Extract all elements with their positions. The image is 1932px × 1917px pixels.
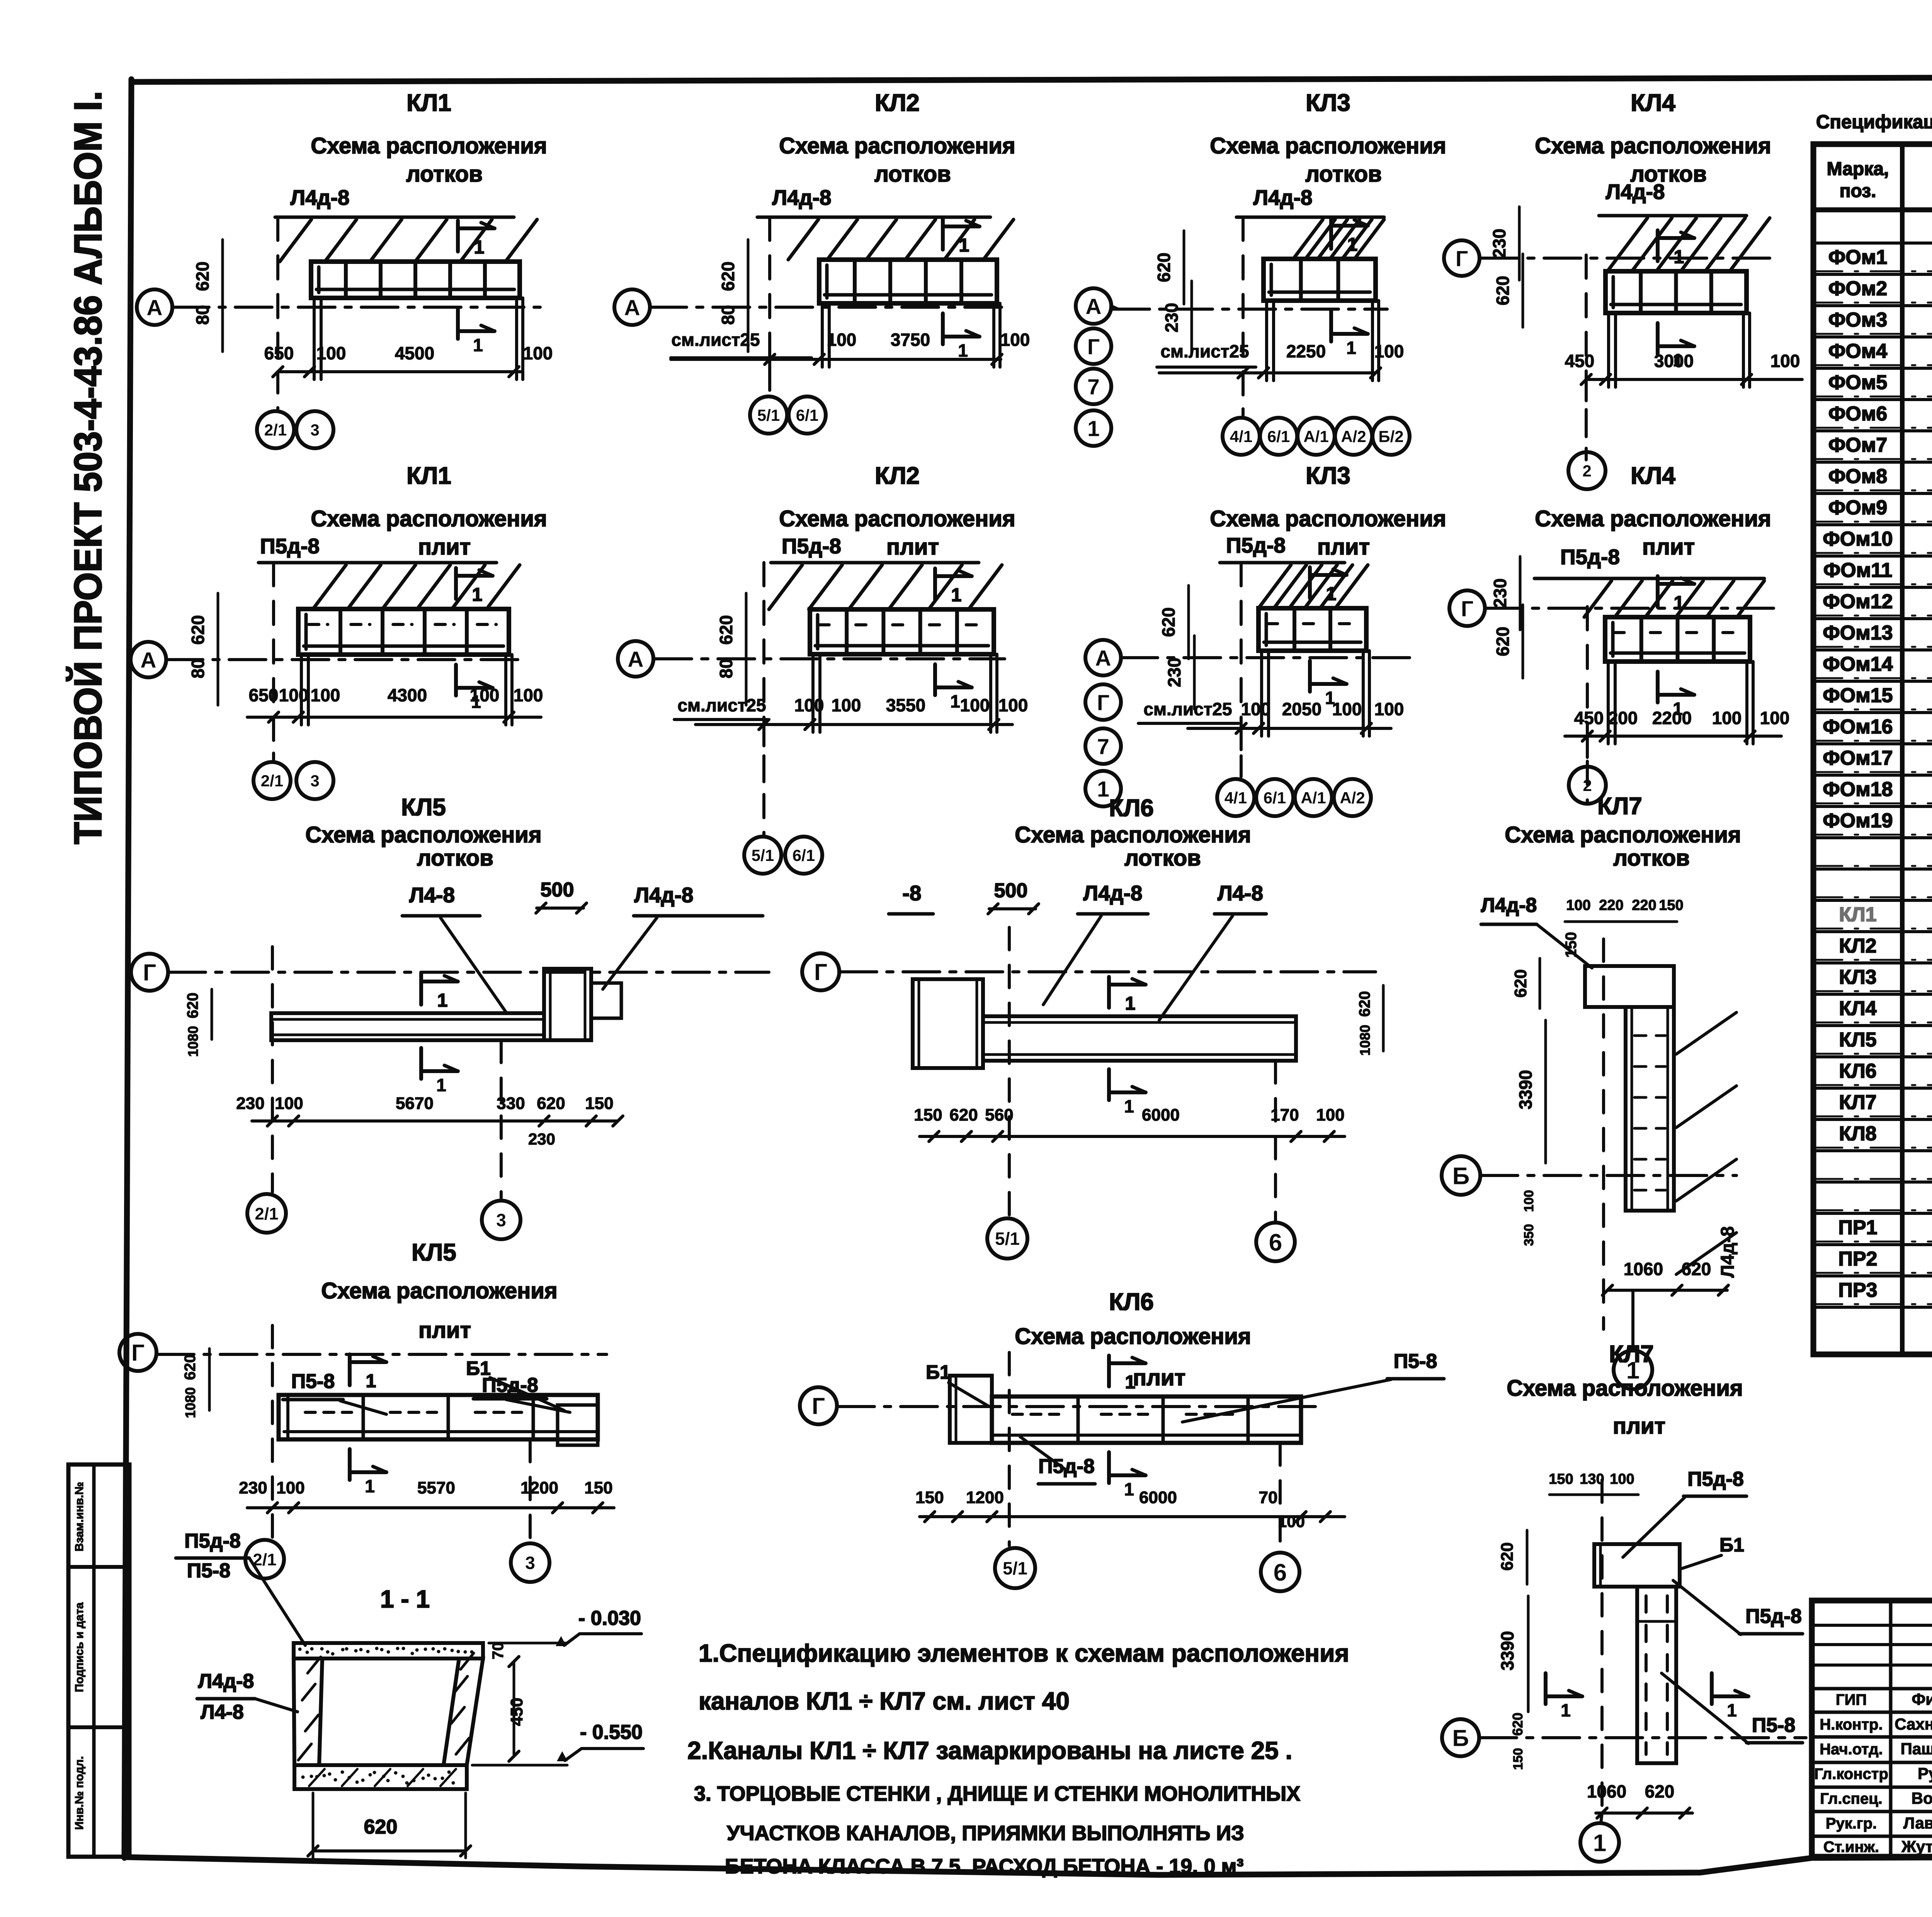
scheme КЛ5 лотков: verticals	[271, 947, 274, 1192]
svg-text:100: 100	[279, 685, 309, 705]
specification table grid	[1813, 144, 1932, 1354]
svg-text:Л4д-8: Л4д-8	[1253, 185, 1313, 209]
scheme КЛ4 лотков: axis line	[1481, 257, 1774, 260]
svg-text:ФОм6: ФОм6	[1828, 403, 1887, 425]
scheme КЛ7 плит: grid bubble 1	[1580, 1823, 1619, 1862]
svg-text:100: 100	[1566, 897, 1590, 913]
scheme КЛ1 плит: channel bar	[298, 609, 509, 655]
scheme КЛ4 плит: axis line	[1486, 607, 1774, 610]
svg-text:- 0.030: - 0.030	[578, 1607, 641, 1630]
svg-text:3390: 3390	[1497, 1631, 1517, 1670]
svg-text:620: 620	[364, 1816, 398, 1838]
svg-text:Г: Г	[814, 959, 827, 985]
svg-text:220: 220	[1599, 897, 1623, 913]
svg-text:Схема расположения: Схема расположения	[779, 506, 1015, 531]
svg-text:А/1: А/1	[1301, 789, 1326, 807]
scheme КЛ4 плит: channel bar	[1605, 617, 1750, 662]
svg-text:1.Спецификацию элементов к с: 1.Спецификацию элементов к схемам распол…	[699, 1639, 1349, 1667]
svg-text:2/1: 2/1	[261, 772, 283, 790]
svg-text:Л4д-8: Л4д-8	[634, 883, 694, 907]
scheme КЛ5 лотков: channel plan	[271, 1013, 544, 1040]
svg-text:ФОм18: ФОм18	[1823, 778, 1893, 801]
svg-text:2: 2	[1582, 462, 1591, 480]
scheme КЛ4 плит: position dashed line	[1586, 607, 1589, 803]
svg-text:1: 1	[1674, 247, 1684, 267]
svg-text:620: 620	[184, 993, 201, 1019]
svg-text:ФОм5: ФОм5	[1828, 371, 1887, 394]
scheme КЛ6 лотков: verticals	[1008, 927, 1011, 1217]
svg-text:620: 620	[192, 262, 213, 291]
svg-text:Схема расположения: Схема расположения	[311, 506, 547, 531]
svg-text:1: 1	[473, 335, 483, 355]
svg-text:Г: Г	[1456, 247, 1468, 271]
svg-text:2200: 2200	[1652, 708, 1692, 728]
svg-text:2/1: 2/1	[253, 1550, 276, 1569]
svg-text:100: 100	[523, 343, 553, 363]
svg-text:А/1: А/1	[1303, 427, 1328, 446]
scheme КЛ3 плит: axis bubble 7	[1085, 728, 1121, 764]
svg-text:П5д-8: П5д-8	[184, 1530, 241, 1552]
svg-text:Схема расположения: Схема расположения	[1507, 1376, 1743, 1401]
scheme КЛ3 лотков: см.лист25 underline	[1157, 366, 1256, 369]
svg-text:5/1: 5/1	[757, 406, 780, 424]
svg-text:80: 80	[716, 658, 736, 678]
svg-text:5/1: 5/1	[995, 1229, 1020, 1249]
svg-text:1080: 1080	[185, 1026, 201, 1057]
scheme КЛ3 плит: channel bar	[1259, 608, 1366, 651]
svg-text:КЛ3: КЛ3	[1306, 463, 1350, 489]
svg-text:П5д-8: П5д-8	[1560, 545, 1620, 569]
svg-text:поз.: поз.	[1840, 181, 1876, 201]
svg-text:1: 1	[1125, 993, 1136, 1014]
scheme КЛ6 плит: plate bar	[950, 1376, 992, 1443]
svg-text:1: 1	[1097, 777, 1109, 802]
svg-text:Л4д-8: Л4д-8	[291, 185, 350, 209]
scheme КЛ6 плит: section marks	[1107, 1356, 1111, 1386]
scheme КЛ1 плит: position dashed line	[272, 563, 275, 748]
scheme КЛ3 плит: hatched slab band	[1259, 565, 1291, 608]
svg-text:П5-8: П5-8	[1752, 1714, 1796, 1737]
svg-text:Схема расположения: Схема расположения	[779, 133, 1015, 158]
svg-text:4/1: 4/1	[1230, 427, 1252, 446]
svg-text:1: 1	[471, 692, 481, 712]
scheme КЛ2 лотков: см.лист25 underline	[671, 356, 811, 359]
svg-text:КЛ4: КЛ4	[1631, 90, 1675, 116]
svg-text:5/1: 5/1	[752, 846, 774, 864]
svg-text:плит: плит	[1613, 1414, 1665, 1439]
scheme КЛ6 лотков: axis Г	[802, 953, 839, 990]
scheme КЛ4 плит: axis bubble Г	[1449, 590, 1485, 626]
svg-text:плит: плит	[886, 534, 939, 560]
scheme КЛ3 плит: axis line	[1121, 656, 1410, 659]
svg-text:1: 1	[472, 585, 483, 605]
svg-text:КЛ5: КЛ5	[412, 1239, 456, 1266]
scheme КЛ1 плит: axis line	[166, 658, 526, 661]
svg-text:А: А	[140, 648, 156, 673]
svg-text:лотков: лотков	[1305, 162, 1382, 187]
svg-text:лотков: лотков	[406, 162, 483, 187]
svg-text:7: 7	[1087, 375, 1100, 400]
svg-text:1200: 1200	[966, 1488, 1004, 1507]
scheme КЛ2 плит: hatched slab band	[769, 565, 802, 609]
svg-text:ПР2: ПР2	[1838, 1248, 1878, 1270]
scheme КЛ7 лотков: grid bubble 1	[1614, 1351, 1652, 1389]
svg-text:100: 100	[275, 1094, 303, 1113]
svg-text:каналов КЛ1 ÷ КЛ7 см. лист: каналов КЛ1 ÷ КЛ7 см. лист 40	[699, 1687, 1070, 1715]
svg-text:КЛ5: КЛ5	[1839, 1029, 1876, 1051]
svg-text:лотков: лотков	[874, 162, 951, 187]
svg-text:620: 620	[1158, 607, 1179, 637]
svg-text:1060: 1060	[1587, 1781, 1626, 1801]
svg-text:200: 200	[1608, 708, 1638, 728]
svg-text:Схема расположения: Схема расположения	[1210, 133, 1446, 158]
svg-text:500: 500	[541, 879, 574, 901]
svg-text:1: 1	[959, 235, 969, 256]
scheme КЛ2 плит: axis line	[655, 657, 1005, 660]
svg-text:1: 1	[1087, 417, 1100, 441]
svg-text:3: 3	[310, 421, 319, 439]
svg-text:1: 1	[1125, 1372, 1136, 1393]
scheme КЛ4 плит: hatched slab band	[1584, 581, 1612, 617]
svg-text:1200: 1200	[520, 1478, 558, 1497]
svg-text:Инв.№ подл.: Инв.№ подл.	[73, 1756, 86, 1830]
svg-text:Схема расположения: Схема расположения	[1505, 822, 1741, 847]
svg-text:лотков: лотков	[417, 845, 493, 871]
scheme КЛ5 лотков: grid bubbles	[247, 1194, 286, 1233]
svg-text:1: 1	[1673, 699, 1683, 719]
svg-text:КЛ7: КЛ7	[1597, 793, 1642, 820]
svg-text:БЕТОНА КЛАССА В 7.5. РАСХ: БЕТОНА КЛАССА В 7.5. РАСХОД БЕТОНА - 19.…	[725, 1855, 1243, 1878]
scheme КЛ1 плит: dimension line	[247, 716, 541, 719]
scheme КЛ7 лотков: channel plan (L-shape)	[1585, 966, 1674, 1007]
scheme КЛ2 плит: position dashed line	[762, 563, 765, 835]
svg-text:3390: 3390	[1515, 1070, 1536, 1109]
scheme КЛ2 лотков: axis bubble А	[614, 289, 650, 325]
svg-text:Л4д-8: Л4д-8	[198, 1670, 254, 1692]
scheme КЛ3 плит: dimension line	[1188, 727, 1391, 730]
svg-text:100: 100	[514, 685, 543, 705]
section 1-1: trough cross-section	[294, 1643, 483, 1658]
svg-text:см.лист25: см.лист25	[1143, 699, 1232, 719]
svg-text:см.лист25: см.лист25	[1160, 341, 1249, 361]
svg-text:170: 170	[1270, 1106, 1299, 1124]
scheme КЛ5 плит: verticals	[271, 1325, 274, 1540]
svg-text:1: 1	[951, 585, 962, 606]
svg-text:ФОм4: ФОм4	[1828, 340, 1887, 362]
svg-text:6/1: 6/1	[793, 846, 815, 864]
svg-text:620: 620	[1645, 1781, 1675, 1801]
svg-text:плит: плит	[418, 1318, 471, 1343]
svg-text:620: 620	[1154, 253, 1174, 282]
svg-text:Л4д-8: Л4д-8	[1481, 894, 1537, 917]
svg-text:80: 80	[718, 305, 738, 325]
svg-text:Г: Г	[143, 960, 156, 986]
scheme КЛ6 плит: axis Г	[800, 1387, 837, 1424]
scheme КЛ6 плит: grid bubbles	[995, 1548, 1035, 1588]
svg-text:100: 100	[276, 1478, 304, 1497]
scheme КЛ3 лотков: axis bubble А	[1076, 288, 1111, 324]
scheme КЛ3 лотков: axis bubble Г	[1076, 328, 1111, 364]
svg-text:ФОм11: ФОм11	[1823, 559, 1892, 582]
scheme КЛ2 плит: grid bubbles bottom	[744, 837, 781, 874]
scheme КЛ2 плит: channel bar	[810, 609, 994, 654]
svg-text:Схема расположения: Схема расположения	[1535, 133, 1771, 158]
svg-text:КЛ3: КЛ3	[1306, 90, 1350, 116]
svg-text:100: 100	[1770, 351, 1800, 371]
svg-text:Б: Б	[1452, 1163, 1470, 1189]
svg-text:4500: 4500	[395, 343, 434, 363]
scheme КЛ7 плит: plate plan	[1594, 1544, 1680, 1587]
scheme КЛ3 плит: axis bubble А	[1085, 640, 1121, 675]
svg-text:КЛ1: КЛ1	[406, 463, 451, 489]
svg-text:70: 70	[1259, 1488, 1278, 1507]
svg-text:Марка,: Марка,	[1827, 159, 1889, 179]
svg-text:450: 450	[507, 1698, 526, 1726]
svg-text:Пашинцев: Пашинцев	[1901, 1740, 1932, 1758]
svg-text:1080: 1080	[1357, 1025, 1373, 1056]
svg-text:6000: 6000	[1139, 1488, 1177, 1507]
svg-text:100: 100	[827, 330, 857, 350]
svg-text:100: 100	[1000, 330, 1030, 350]
svg-text:А: А	[628, 647, 643, 672]
scheme КЛ1 лотков: channel bar	[311, 262, 520, 298]
svg-text:ФОм10: ФОм10	[1823, 528, 1893, 550]
svg-text:1: 1	[1561, 1700, 1571, 1720]
svg-text:220: 220	[1632, 897, 1656, 913]
svg-text:А: А	[1085, 294, 1101, 319]
svg-text:1: 1	[1727, 1700, 1737, 1720]
svg-text:450: 450	[1574, 708, 1604, 728]
svg-text:Б: Б	[1452, 1725, 1469, 1751]
svg-text:КЛ6: КЛ6	[1109, 795, 1154, 822]
scheme КЛ1 лотков: axis bubble А	[137, 289, 172, 325]
svg-text:100: 100	[1610, 1471, 1634, 1487]
scheme КЛ3 лотков: dimension line	[1159, 371, 1376, 374]
scheme КЛ5 плит: section marks	[348, 1354, 352, 1385]
svg-text:Б1: Б1	[1719, 1534, 1744, 1556]
svg-text:6/1: 6/1	[1267, 427, 1290, 446]
svg-text:620: 620	[1682, 1259, 1711, 1279]
svg-text:6: 6	[1274, 1559, 1287, 1586]
scheme КЛ4 плит: grid bubbles bottom	[1569, 767, 1606, 804]
svg-text:ПР3: ПР3	[1838, 1279, 1878, 1301]
scheme КЛ3 плит: position dashed line	[1240, 563, 1243, 773]
svg-text:1: 1	[436, 1075, 446, 1095]
svg-text:ФОм8: ФОм8	[1828, 465, 1887, 488]
svg-text:ФОм3: ФОм3	[1828, 309, 1887, 331]
scheme КЛ3 лотков: position dashed line	[1242, 217, 1245, 398]
svg-text:620: 620	[1493, 276, 1513, 306]
svg-text:80: 80	[188, 658, 208, 678]
svg-text:150: 150	[1549, 1471, 1573, 1487]
scheme КЛ3 плит: grid bubbles bottom	[1217, 779, 1254, 816]
scheme КЛ2 плит: bar edge extension lines	[811, 654, 815, 732]
scheme КЛ5 плит: plate bar	[279, 1395, 598, 1439]
svg-text:Схема расположения: Схема расположения	[311, 133, 547, 158]
scheme КЛ5 лотков: axis Г	[131, 954, 168, 991]
svg-text:лотков: лотков	[1124, 845, 1201, 871]
svg-text:-8: -8	[903, 881, 922, 905]
svg-text:Схема расположения: Схема расположения	[1015, 1324, 1251, 1349]
svg-text:500: 500	[994, 879, 1028, 902]
svg-text:100: 100	[1241, 699, 1271, 719]
svg-text:Л4-8: Л4-8	[409, 883, 455, 907]
svg-text:ФОм9: ФОм9	[1828, 497, 1887, 519]
svg-text:150: 150	[915, 1488, 944, 1507]
scheme КЛ1 плит: section mark 1	[454, 568, 458, 599]
svg-text:Спецификация элементов к схеме: Спецификация элементов к схеме расположе…	[1816, 112, 1932, 133]
svg-text:5/1: 5/1	[1003, 1558, 1027, 1579]
svg-text:ФОм14: ФОм14	[1823, 653, 1893, 675]
svg-text:П5д-8: П5д-8	[1038, 1455, 1095, 1478]
svg-text:3750: 3750	[891, 330, 930, 350]
svg-text:см.лист25: см.лист25	[677, 695, 766, 715]
scheme КЛ2 лотков: section mark 1	[941, 219, 945, 250]
svg-text:230: 230	[236, 1094, 264, 1113]
svg-text:1: 1	[1326, 584, 1337, 604]
svg-text:плит: плит	[418, 534, 471, 560]
svg-text:ФОм13: ФОм13	[1823, 622, 1893, 644]
svg-text:100: 100	[960, 695, 990, 715]
svg-text:П5-8: П5-8	[187, 1560, 231, 1582]
svg-text:620: 620	[1510, 1713, 1526, 1736]
svg-text:2/1: 2/1	[264, 421, 287, 439]
scheme КЛ1 лотков: dimension line	[278, 370, 522, 373]
scheme КЛ3 лотков: axis line	[1113, 308, 1387, 311]
svg-text:плит: плит	[1642, 534, 1695, 560]
svg-text:Л4д-8: Л4д-8	[1606, 180, 1665, 204]
svg-text:лотков: лотков	[1613, 845, 1690, 871]
svg-text:150: 150	[584, 1478, 612, 1497]
scheme КЛ6 лотков: section marks	[1107, 977, 1111, 1008]
svg-text:150: 150	[1511, 1748, 1526, 1770]
svg-text:350: 350	[1522, 1224, 1536, 1246]
svg-text:100: 100	[1760, 708, 1790, 728]
svg-text:620: 620	[1511, 969, 1530, 997]
scheme КЛ4 лотков: hatched slab band	[1607, 218, 1648, 271]
svg-text:1: 1	[366, 1371, 376, 1391]
svg-text:650: 650	[249, 685, 279, 705]
svg-text:Л4-8: Л4-8	[201, 1701, 244, 1723]
scheme КЛ4 лотков: axis bubble Г	[1444, 240, 1480, 276]
scheme КЛ4 плит: dimension line	[1565, 735, 1781, 738]
scheme КЛ2 лотков: dimension line	[671, 358, 1001, 361]
scheme КЛ1 плит: bar edge extension lines	[300, 655, 303, 725]
svg-text:Л4-8: Л4-8	[1218, 881, 1263, 905]
scheme КЛ1 плит: grid bubbles bottom	[253, 762, 291, 799]
svg-text:КЛ2: КЛ2	[875, 463, 920, 489]
scheme КЛ5 лотков: section marks	[419, 974, 423, 1005]
svg-text:100: 100	[311, 685, 340, 705]
svg-text:П5д-8: П5д-8	[1226, 533, 1286, 557]
svg-text:ФОм16: ФОм16	[1823, 716, 1893, 738]
svg-text:100: 100	[1316, 1106, 1344, 1124]
svg-text:620: 620	[537, 1094, 565, 1113]
svg-text:230: 230	[1164, 658, 1184, 687]
svg-text:650: 650	[264, 343, 294, 363]
svg-text:1: 1	[1593, 1830, 1606, 1856]
svg-text:620: 620	[1493, 627, 1513, 657]
scheme КЛ7 плит: axis Б	[1442, 1719, 1479, 1756]
svg-text:3: 3	[525, 1553, 535, 1573]
svg-text:1 - 1: 1 - 1	[380, 1585, 430, 1613]
svg-text:6000: 6000	[1142, 1106, 1180, 1124]
scheme КЛ4 лотков: channel bar	[1605, 271, 1747, 313]
scheme КЛ3 плит: bar edge extension lines	[1260, 651, 1263, 736]
svg-text:1: 1	[1346, 338, 1356, 358]
scheme КЛ2 лотков: bar edge extension lines	[821, 303, 824, 367]
svg-text:620: 620	[716, 615, 736, 645]
scheme КЛ3 плит: см.лист25 underline	[1138, 722, 1238, 725]
svg-text:ФОм1: ФОм1	[1828, 246, 1887, 269]
svg-text:КЛ4: КЛ4	[1839, 997, 1876, 1020]
scheme КЛ4 лотков: dimension line	[1586, 378, 1802, 381]
scheme КЛ2 плит: см.лист25 underline	[674, 718, 767, 721]
scheme КЛ1 лотков: section mark 1	[456, 221, 460, 252]
svg-text:1: 1	[1347, 235, 1358, 255]
svg-text:1: 1	[365, 1476, 375, 1496]
svg-text:Б1: Б1	[926, 1361, 951, 1383]
svg-text:Рубан: Рубан	[1918, 1764, 1932, 1783]
svg-text:Г: Г	[131, 1340, 145, 1366]
scheme КЛ3 плит: axis bubble 1	[1085, 771, 1121, 806]
svg-text:Нач.отд.: Нач.отд.	[1820, 1741, 1883, 1758]
svg-text:П5д-8: П5д-8	[260, 534, 320, 558]
svg-text:КЛ1: КЛ1	[406, 90, 451, 116]
svg-text:2.Каналы КЛ1 ÷ КЛ7 замаркиро: 2.Каналы КЛ1 ÷ КЛ7 замаркированы на лист…	[687, 1737, 1292, 1764]
scheme КЛ3 лотков: bar edge extension lines	[1265, 301, 1268, 381]
svg-text:Г: Г	[812, 1393, 825, 1419]
svg-text:6: 6	[1269, 1229, 1282, 1256]
svg-text:4/1: 4/1	[1225, 789, 1247, 807]
svg-text:КЛ4: КЛ4	[1631, 463, 1675, 489]
svg-text:КЛ5: КЛ5	[401, 794, 446, 821]
svg-text:150: 150	[914, 1106, 942, 1124]
svg-text:3. ТОРЦОВЫЕ СТЕНКИ , ДНИЩЕ: 3. ТОРЦОВЫЕ СТЕНКИ , ДНИЩЕ И СТЕНКИ МОНО…	[694, 1782, 1300, 1805]
svg-text:А: А	[624, 296, 640, 320]
svg-text:ФОм17: ФОм17	[1823, 747, 1893, 769]
svg-text:1060: 1060	[1624, 1259, 1663, 1279]
svg-text:ПР1: ПР1	[1838, 1216, 1878, 1239]
svg-text:150: 150	[585, 1094, 613, 1113]
svg-text:Схема расположения: Схема расположения	[1535, 506, 1771, 531]
svg-text:Рук.гр.: Рук.гр.	[1826, 1815, 1877, 1832]
svg-text:ТИПОВОЙ ПРОЕКТ 503-4-43.86: ТИПОВОЙ ПРОЕКТ 503-4-43.86 АЛЬБОМ I.	[66, 91, 110, 844]
svg-text:КЛ7: КЛ7	[1839, 1091, 1876, 1114]
svg-text:КЛ2: КЛ2	[1839, 935, 1876, 957]
scheme КЛ2 лотков: axis line	[650, 306, 1005, 309]
svg-text:150: 150	[1563, 932, 1580, 958]
svg-text:230: 230	[528, 1130, 555, 1148]
sheet frame border	[133, 76, 1932, 82]
svg-text:5570: 5570	[417, 1478, 455, 1497]
scheme КЛ5 плит: axis Г	[119, 1334, 156, 1371]
scheme КЛ1 лотков: grid bubbles bottom	[257, 411, 294, 448]
svg-text:КЛ7: КЛ7	[1609, 1341, 1654, 1368]
svg-text:Подпись и дата: Подпись и дата	[73, 1602, 86, 1692]
svg-text:2/1: 2/1	[255, 1204, 278, 1223]
scheme КЛ1 лотков: axis line	[172, 306, 541, 309]
svg-text:Ст.инж.: Ст.инж.	[1823, 1839, 1879, 1856]
svg-text:Г: Г	[1461, 597, 1473, 621]
scheme КЛ1 лотков: bar edge extension lines	[313, 298, 316, 379]
svg-text:2050: 2050	[1282, 699, 1321, 719]
scheme КЛ5 плит: grid bubbles	[245, 1540, 284, 1579]
svg-text:ФОм15: ФОм15	[1823, 684, 1893, 707]
svg-text:Схема расположения: Схема расположения	[1015, 822, 1251, 847]
scheme КЛ3 лотков: section mark 1	[1329, 218, 1333, 249]
scheme КЛ3 плит: axis bubble Г	[1085, 684, 1121, 720]
